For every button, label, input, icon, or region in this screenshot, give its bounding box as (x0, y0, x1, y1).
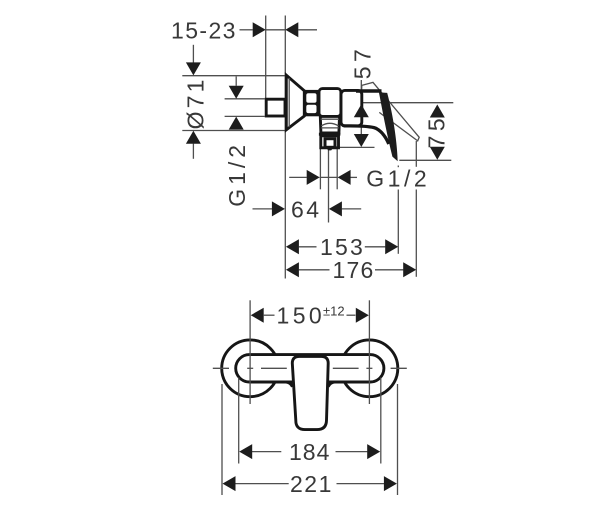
svg-text:176: 176 (333, 257, 375, 283)
svg-text:±12: ±12 (323, 303, 345, 318)
svg-text:64: 64 (291, 196, 322, 222)
svg-text:57: 57 (349, 45, 375, 80)
svg-text:15-23: 15-23 (171, 18, 237, 44)
svg-text:75: 75 (424, 114, 450, 149)
svg-text:G1/2: G1/2 (366, 165, 430, 191)
svg-text:221: 221 (290, 471, 333, 497)
svg-text:184: 184 (289, 439, 330, 465)
svg-text:150: 150 (277, 303, 326, 329)
svg-text:Ø71: Ø71 (182, 76, 208, 129)
svg-text:G1/2: G1/2 (224, 141, 250, 207)
